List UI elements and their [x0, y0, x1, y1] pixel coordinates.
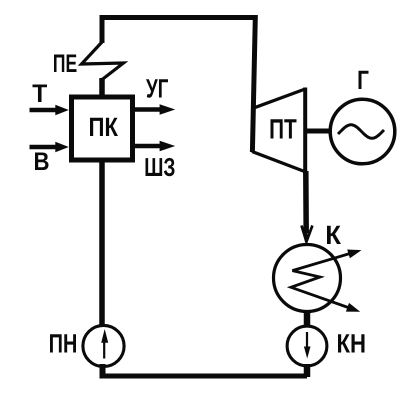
- wire: turbine exhaust down to condenser with arrow: [302, 171, 313, 242]
- sine wave inside generator: [338, 125, 384, 139]
- wire: turbine to generator: [306, 129, 330, 134]
- generator G circle: [330, 99, 395, 164]
- label K: [327, 226, 341, 244]
- label PE: [54, 54, 77, 72]
- arrow UG (flue gas out): [135, 104, 175, 115]
- label ShZ: [146, 158, 175, 176]
- wire: boiler bottom down to feed pump: [99, 160, 105, 327]
- condensate pump KN circle: [287, 326, 327, 366]
- label UG: [146, 79, 168, 97]
- arrow inside KN (down): [304, 332, 311, 359]
- label PT: [271, 119, 297, 138]
- wire: feed pump to bottom pipe: [100, 364, 106, 376]
- arrow inside PN (up): [101, 329, 108, 359]
- label G: [359, 71, 369, 89]
- turbine PT trapezoid: [252, 88, 305, 174]
- wire: bottom condensate pipe: [100, 374, 308, 379]
- cooling water zigzag with arrows through condenser: [291, 250, 362, 312]
- arrow V (air input): [30, 142, 69, 153]
- boiler PK box: [72, 97, 133, 160]
- wire: condensate pump to bottom pipe: [304, 364, 311, 377]
- superheater PE zigzag: [82, 42, 124, 80]
- label T: [33, 84, 48, 102]
- arrow ShZ (slag out): [135, 141, 175, 152]
- condenser K circle: [274, 245, 341, 312]
- wire: condenser to condensate pump: [304, 310, 311, 328]
- feed pump PN circle: [83, 325, 124, 366]
- arrow T (fuel input): [30, 105, 69, 116]
- wire: zigzag to boiler top: [99, 78, 105, 98]
- label PK: [90, 118, 118, 136]
- wire: top steam pipe from boiler to turbine: [102, 18, 255, 153]
- label KN: [338, 334, 365, 352]
- label PN: [50, 334, 76, 352]
- label V: [35, 152, 49, 170]
